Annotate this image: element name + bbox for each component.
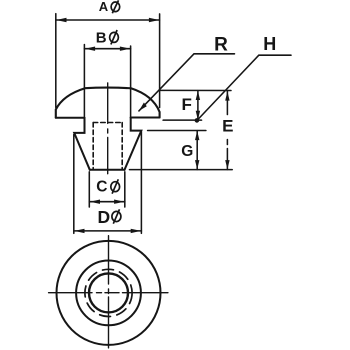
svg-text:H: H bbox=[263, 34, 276, 54]
svg-text:F: F bbox=[182, 95, 192, 114]
svg-text:G: G bbox=[181, 143, 193, 160]
svg-text:C: C bbox=[96, 179, 107, 196]
svg-text:A: A bbox=[99, 0, 109, 14]
svg-text:B: B bbox=[96, 29, 107, 46]
svg-text:E: E bbox=[222, 117, 233, 136]
svg-text:D: D bbox=[97, 207, 110, 227]
svg-text:R: R bbox=[214, 34, 228, 55]
